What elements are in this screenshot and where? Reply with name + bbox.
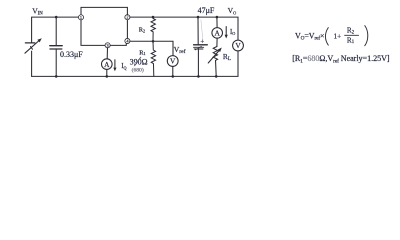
formula Vo=Vref x (1+R2/R1): [295, 31, 324, 41]
label R2: [139, 26, 145, 33]
label IQ: [121, 63, 126, 70]
arrowhead Io: [225, 35, 228, 39]
strike slash over 390: [135, 57, 141, 66]
svg-text:VO=Vref×: VO=Vref×: [295, 31, 324, 41]
wire 47uF bottom lead: [197, 49, 199, 77]
IC box regulator: [81, 7, 127, 45]
svg-text:1: 1: [80, 15, 82, 20]
voltmeter V (Vo): [233, 40, 244, 51]
wire 47uF top lead: [197, 17, 199, 45]
svg-text:A: A: [215, 29, 221, 38]
formula R1 denominator: [347, 36, 355, 45]
svg-text:[R1=680Ω,Vref Nearly=1.25V]: [R1=680Ω,Vref Nearly=1.25V]: [292, 54, 390, 64]
ammeter A (Io): [212, 28, 223, 39]
label R1: [139, 49, 145, 56]
node dot Io branch: [216, 16, 219, 19]
wire RL bottom lead: [215, 62, 218, 76]
wire Io branch top: [216, 17, 218, 28]
label 0.33uF: [60, 50, 83, 59]
pin 4: [125, 38, 130, 43]
current arrow IQ: [114, 60, 116, 69]
resistor RL (variable): [213, 47, 217, 63]
svg-text:47μF: 47μF: [198, 6, 215, 15]
wire pin 3 to ammeter IQ: [106, 48, 108, 59]
svg-text:Vref: Vref: [174, 45, 186, 55]
svg-text:V: V: [235, 41, 241, 50]
label VIN: [32, 6, 43, 16]
svg-text:VO: VO: [228, 6, 237, 15]
wire ammeter Io to RL: [216, 38, 218, 46]
value 390ohm (struck): [130, 58, 148, 67]
capacitor 47uF hatch slash: [195, 46, 201, 50]
formula R2 numerator: [347, 27, 355, 36]
svg-text:R2: R2: [139, 26, 145, 33]
node dot input cap top: [55, 16, 58, 19]
plus sign 47uF: [201, 40, 204, 43]
svg-text:A: A: [104, 60, 110, 69]
svg-text:1+: 1+: [334, 32, 342, 40]
node dot IQ bottom: [106, 75, 109, 78]
svg-text:(680): (680): [132, 66, 144, 73]
svg-text:V: V: [170, 57, 176, 66]
node dot R1 top: [152, 40, 155, 43]
variable source tick: [31, 47, 33, 50]
pencil crease line: [201, 20, 203, 40]
pin 3: [105, 43, 110, 48]
value correction (680): [132, 66, 144, 73]
node dot 47uF bottom: [197, 75, 200, 78]
svg-text:RL: RL: [223, 52, 231, 62]
label Vo: [228, 6, 237, 15]
wire 0.33uF bottom lead: [55, 49, 57, 76]
capacitor 0.33uF plates: [50, 46, 62, 49]
label RL: [223, 52, 231, 62]
wire 0.33uF top lead: [55, 17, 57, 46]
node dot Vref bottom: [172, 75, 175, 78]
svg-text:R1: R1: [139, 49, 145, 56]
wire ammeter IQ to bottom rail: [106, 69, 108, 76]
wire top rail right (pin 2 to Vo corner): [130, 17, 238, 40]
svg-text:2: 2: [126, 15, 128, 20]
current arrow Io: [225, 27, 227, 36]
label Io: [230, 29, 235, 36]
label Vref: [174, 45, 186, 55]
node dot RL bottom: [215, 75, 218, 78]
variable source plate: [25, 42, 34, 44]
resistor R2: [151, 17, 155, 41]
wire voltmeter Vref to bottom rail: [172, 66, 174, 76]
ammeter A (IQ): [102, 59, 113, 70]
wire VIN source lower lead: [31, 51, 33, 76]
svg-text:390Ω: 390Ω: [130, 58, 148, 67]
formula 1+: [334, 32, 342, 40]
resistor R1: [151, 41, 155, 76]
variable source arrow: [25, 41, 39, 53]
svg-text:R1: R1: [347, 36, 355, 45]
svg-text:3: 3: [107, 43, 109, 48]
capacitor 47uF top plate: [194, 44, 208, 46]
formula fraction bar: [345, 34, 359, 36]
svg-text:VIN: VIN: [32, 6, 43, 16]
variable source arrowhead: [37, 38, 41, 42]
pin 2: [125, 15, 130, 20]
note R1=680ohm Vref nearly 1.25V: [292, 54, 390, 64]
wire top rail left (VIN corner to pin 1): [32, 17, 79, 43]
RL arrow: [208, 51, 219, 63]
wire bottom rail: [32, 51, 238, 76]
label 47uF: [198, 6, 215, 15]
wire ADJ (pin 4 to Vref corner): [130, 41, 173, 55]
RL arrowhead: [218, 48, 222, 53]
voltmeter V (Vref): [167, 56, 178, 67]
node dot 0.33uF bottom: [55, 75, 58, 78]
arrowhead IQ: [113, 68, 116, 72]
pin 1: [78, 15, 83, 20]
capacitor 47uF bottom plate (hatched): [194, 47, 204, 49]
node dot 47uF top: [197, 16, 200, 19]
svg-text:IQ: IQ: [121, 63, 126, 70]
svg-text:IO: IO: [230, 29, 235, 36]
node dot R2 top: [152, 16, 155, 19]
svg-text:R2: R2: [347, 27, 355, 36]
formula open paren: [325, 28, 328, 45]
svg-text:0.33μF: 0.33μF: [60, 50, 83, 59]
formula close paren: [365, 26, 368, 46]
